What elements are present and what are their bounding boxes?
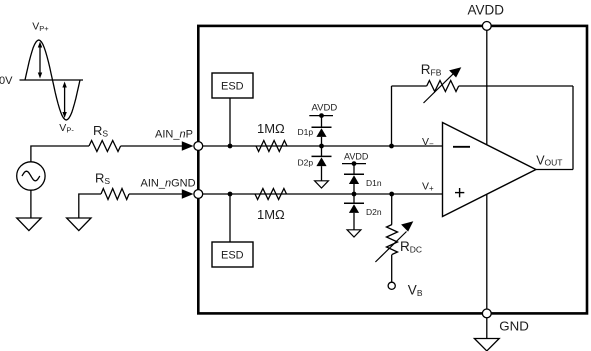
svg-text:AVDD: AVDD — [312, 102, 338, 113]
ESD block (top) — [212, 73, 253, 98]
terminal VB circle — [388, 282, 395, 289]
junction row2/diodes — [352, 192, 357, 197]
junction row1/diodes — [319, 144, 324, 149]
resistor RS (AIN_nP) — [89, 141, 121, 152]
junction row2/ESD — [228, 192, 233, 197]
svg-text:1MΩ: 1MΩ — [257, 207, 285, 222]
wire feedback left horizontal — [392, 85, 427, 87]
svg-text:0V: 0V — [0, 75, 13, 87]
power AVDD stub (p-chain) — [309, 102, 337, 127]
wire RS1 to input arrow — [121, 145, 183, 147]
arrow RFB — [424, 67, 462, 103]
wire feedback right horizontal — [459, 85, 573, 87]
svg-text:AIN_nGND: AIN_nGND — [141, 177, 196, 189]
op-amp U1 — [443, 123, 536, 217]
junction row1/feedback — [389, 144, 394, 149]
wire row2 node to op-amp — [203, 193, 443, 195]
arrow VP+ amplitude — [38, 42, 42, 79]
input arrow AIN_nGND — [182, 189, 194, 199]
resistor RDC (variable) — [387, 225, 398, 255]
svg-text:D1n: D1n — [366, 178, 382, 188]
wire ESD bottom to row2 — [229, 194, 231, 242]
wire feedback right vertical — [572, 86, 574, 170]
svg-text:AVDD: AVDD — [344, 151, 369, 161]
sine waveform — [25, 40, 80, 120]
ground symbol (GND) — [474, 339, 499, 351]
svg-text:D1p: D1p — [298, 127, 314, 137]
ground (source) — [17, 218, 41, 231]
svg-text:GND: GND — [499, 319, 529, 334]
svg-text:AVDD: AVDD — [468, 2, 505, 17]
diode D2n — [344, 194, 364, 230]
wire GND pin to ground symbol — [486, 318, 488, 339]
source VS sine generator — [17, 162, 45, 190]
ground GND pin circle — [482, 309, 491, 318]
node AIN_nP circle — [194, 142, 203, 151]
resistor RFB (variable) — [427, 81, 459, 92]
ground (n-chain) — [347, 230, 361, 237]
svg-text:D2n: D2n — [366, 207, 382, 217]
ESD block (bottom) — [212, 242, 253, 267]
diode D1p — [312, 127, 332, 146]
arrow RDC — [375, 221, 413, 262]
waveform 0V axis — [20, 79, 84, 81]
wire row2 to RDC — [391, 194, 393, 225]
wire source bottom to ground — [30, 190, 32, 218]
wire ground to RS2 — [79, 194, 101, 218]
device boundary box — [198, 26, 587, 314]
junction row2/RDC — [389, 192, 394, 197]
wire feedback left vertical — [391, 86, 393, 146]
svg-text:ESD: ESD — [221, 81, 244, 93]
resistor 1MΩ (row1) — [256, 141, 287, 152]
power AVDD stub (n-chain) — [342, 151, 369, 174]
input arrow AIN_nP — [182, 141, 194, 151]
wire source top to RS1 — [31, 146, 89, 162]
diode D1n — [344, 174, 364, 194]
power AVDD pin circle — [482, 22, 491, 31]
wire ESD top to row1 — [229, 98, 231, 146]
svg-text:D2p: D2p — [298, 157, 314, 167]
diode D2p — [312, 146, 332, 181]
ground (p-chain) — [315, 181, 329, 188]
wire AVDD to op-amp top — [486, 30, 488, 145]
wire RS2 to input arrow — [129, 193, 183, 195]
wire RDC to VB terminal — [391, 255, 393, 283]
wire op-amp output — [536, 169, 573, 171]
resistor 1MΩ (row2) — [255, 189, 287, 200]
junction row1/ESD — [228, 144, 233, 149]
svg-text:AIN_nP: AIN_nP — [155, 128, 193, 140]
wire op-amp bottom to GND — [486, 194, 488, 309]
node AIN_nGND circle — [194, 190, 203, 199]
svg-text:ESD: ESD — [221, 250, 244, 262]
svg-text:1MΩ: 1MΩ — [257, 121, 285, 136]
wire row1 node to op-amp — [203, 145, 443, 147]
arrow VP- amplitude — [62, 82, 66, 119]
resistor RS (AIN_nGND) — [101, 189, 129, 200]
ground (RS AIN_nGND) — [67, 218, 91, 231]
